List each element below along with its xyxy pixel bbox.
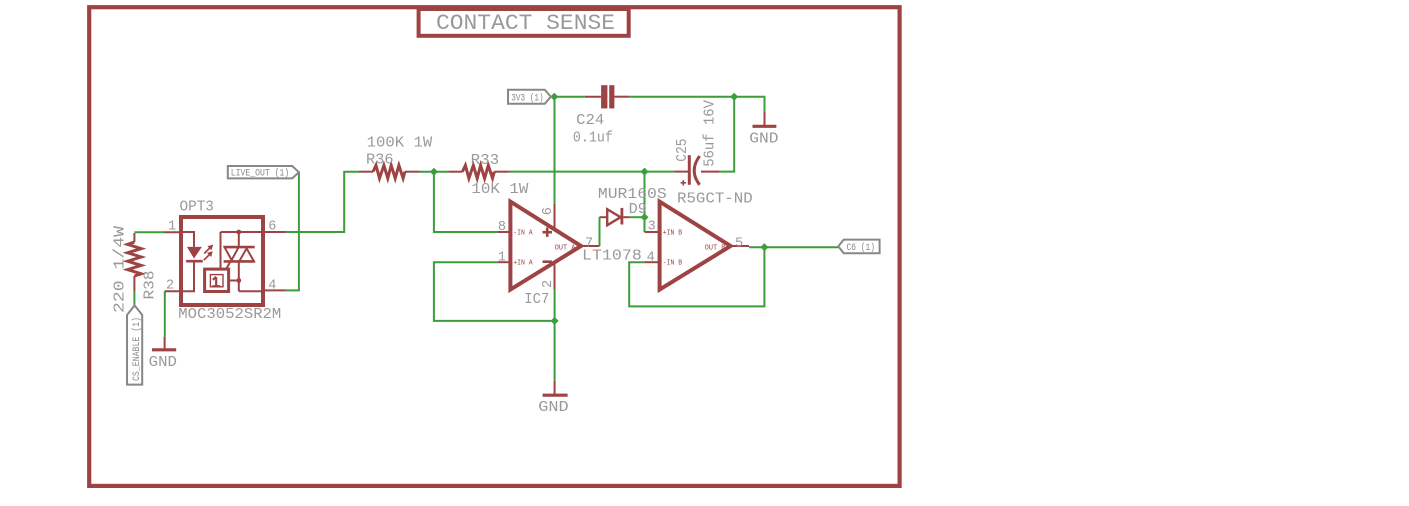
svg-text:-IN B: -IN B <box>663 259 683 267</box>
svg-text:OUT A: OUT A <box>555 244 576 252</box>
svg-text:LT1078: LT1078 <box>582 248 642 265</box>
junction main net / C25 / D9 branch <box>641 168 649 176</box>
resistor R33 <box>448 165 509 178</box>
svg-text:OPT3: OPT3 <box>180 199 214 216</box>
OPT3 pin 6 lead <box>263 231 286 233</box>
wire opamp V- to ground <box>554 290 556 381</box>
junction C24 / GND / C25 riser <box>730 93 738 101</box>
label IC7 <box>524 291 549 308</box>
svg-text:100K 1W: 100K 1W <box>367 135 433 152</box>
svg-text:GND: GND <box>538 399 568 416</box>
svg-text:MOC3052SR2M: MOC3052SR2M <box>178 306 281 323</box>
svg-text:C6 (1): C6 (1) <box>847 242 876 254</box>
wire R33 to C25 <box>509 171 675 173</box>
net flag LIVE_OUT (1) <box>228 166 299 179</box>
IC7A pin number 8 <box>498 220 506 235</box>
svg-text:3: 3 <box>648 219 656 234</box>
wire D9 cathode to junction <box>629 216 644 218</box>
OPT3 pin 1 lead <box>165 231 182 233</box>
svg-text:6: 6 <box>541 207 556 215</box>
label LT1078 <box>582 248 642 265</box>
wire +IN A feedback loop <box>434 262 555 321</box>
svg-text:CS_ENABLE (1): CS_ENABLE (1) <box>131 317 143 381</box>
label MOC3052SR2M <box>178 306 281 323</box>
IC7B pin number 3 <box>648 219 656 234</box>
label OPT3 <box>180 199 214 216</box>
svg-text:2: 2 <box>166 279 174 294</box>
svg-text:+IN A: +IN A <box>513 259 533 267</box>
junction R36/R33/-IN A <box>430 168 438 176</box>
wire R36 to R33 <box>420 171 449 173</box>
IC7A pin number 6 vertical <box>541 207 556 215</box>
svg-text:LIVE_OUT (1): LIVE_OUT (1) <box>231 167 290 179</box>
OPT3 pin 2 lead <box>165 290 181 292</box>
junction feedback A / V- rail <box>551 317 559 325</box>
optocoupler OPT3 box <box>181 217 263 305</box>
label C24 <box>576 112 604 129</box>
junction 3V3 flag <box>550 93 558 101</box>
OPT3 pin number 4 <box>268 278 276 293</box>
OPT3 pin number 6 <box>268 220 276 235</box>
resistor R38 <box>128 233 142 291</box>
label R36 name <box>366 151 394 168</box>
svg-text:0.1uf: 0.1uf <box>573 129 613 146</box>
OPT3 pin number 2 <box>166 279 174 294</box>
IC7B pin number 4 <box>647 250 655 265</box>
wire LIVE_OUT vertical to pin4 <box>286 172 299 290</box>
svg-text:CONTACT SENSE: CONTACT SENSE <box>436 10 615 36</box>
net flag CS_ENABLE (1) <box>127 305 143 384</box>
wire R38 to CS_ENABLE flag <box>133 291 135 305</box>
IC7A pin number 2 vertical <box>541 280 556 288</box>
label C25 value 56uf 16V <box>702 100 719 167</box>
wire OUT B to C6 flag <box>749 246 838 248</box>
svg-text:1: 1 <box>168 219 176 234</box>
wire net junction down to +IN B <box>644 172 646 232</box>
OPT3 pin 4 lead <box>263 289 286 291</box>
wire OUT A up to D9 <box>599 217 601 246</box>
op-amp IC7A <box>497 202 599 290</box>
svg-text:IC7: IC7 <box>524 291 549 308</box>
OPT3 gate driver box with 1 <box>205 261 231 291</box>
svg-text:MUR160S: MUR160S <box>598 186 667 203</box>
ground GND middle <box>538 381 568 416</box>
junction OUT B / feedback / C6 <box>760 243 768 251</box>
svg-text:R33: R33 <box>471 152 500 169</box>
svg-text:-IN A: -IN A <box>513 229 533 237</box>
svg-text:GND: GND <box>749 131 778 148</box>
diode D9 <box>600 208 630 225</box>
svg-text:R38: R38 <box>142 271 159 300</box>
label D9 <box>629 201 647 218</box>
svg-text:OUT B: OUT B <box>705 244 726 252</box>
capacitor C25 polarized <box>674 155 719 185</box>
svg-text:220 1/4W: 220 1/4W <box>112 226 129 313</box>
IC7A pin number 7 <box>585 236 593 251</box>
wire C25 right to riser <box>719 97 734 172</box>
label MUR160S <box>598 186 667 203</box>
ground GND left <box>149 337 177 371</box>
svg-text:56uf 16V: 56uf 16V <box>702 100 719 167</box>
svg-text:GND: GND <box>149 354 177 371</box>
svg-text:R36: R36 <box>366 151 394 168</box>
wire -IN B feedback loop <box>629 247 764 306</box>
OPT3 pin number 1 <box>168 219 176 234</box>
IC7B pin number 5 <box>735 236 743 251</box>
OPT3 internal LED branch <box>181 232 203 291</box>
svg-text:1: 1 <box>498 250 506 265</box>
wire R38 to pin1 <box>134 231 164 233</box>
ground GND right <box>749 111 778 147</box>
svg-text:2: 2 <box>541 280 556 288</box>
svg-text:4: 4 <box>268 278 276 293</box>
wire pin2 to ground <box>164 291 166 337</box>
wire junction to -IN A <box>434 172 497 232</box>
svg-text:6: 6 <box>268 220 276 235</box>
label R33 value 10K 1W <box>471 181 528 198</box>
net flag C6 (1) <box>838 240 879 255</box>
svg-text:4: 4 <box>647 250 655 265</box>
svg-text:10K 1W: 10K 1W <box>471 181 528 198</box>
title box CONTACT SENSE <box>419 9 629 36</box>
svg-text:5: 5 <box>735 236 743 251</box>
op-amp IC7B <box>644 202 749 290</box>
frame border <box>89 7 899 486</box>
capacitor C24 <box>585 85 629 108</box>
label R5GCT-ND <box>677 190 753 207</box>
label C25 <box>674 139 691 162</box>
svg-text:3V3 (1): 3V3 (1) <box>511 92 544 104</box>
label R38 value 220 1/4W <box>112 226 129 313</box>
net flag 3V3 (1) <box>508 90 551 105</box>
svg-text:C24: C24 <box>576 112 604 129</box>
svg-text:+IN B: +IN B <box>663 229 683 237</box>
svg-text:D9: D9 <box>629 201 647 218</box>
svg-text:R5GCT-ND: R5GCT-ND <box>677 190 753 207</box>
resistor R36 <box>359 165 420 178</box>
junction D9 cathode / +IN B <box>641 213 649 221</box>
wire 3V3 flag to C24 <box>551 96 585 98</box>
label C24 value 0.1uf <box>573 129 613 146</box>
OPT3 internal triac branch <box>221 230 264 292</box>
svg-text:8: 8 <box>498 220 506 235</box>
label R38 name <box>142 271 159 300</box>
svg-text:C25: C25 <box>674 139 691 162</box>
wire pin6 to net corner <box>286 172 359 232</box>
wire C24 to GND corner <box>629 97 764 112</box>
IC7A pin number 1 <box>498 250 506 265</box>
OPT3 emission arrows <box>204 245 213 261</box>
wire 3V3 down to opamp V+ <box>554 97 556 204</box>
label R33 name <box>471 152 500 169</box>
label R36 value 100K 1W <box>367 135 433 152</box>
